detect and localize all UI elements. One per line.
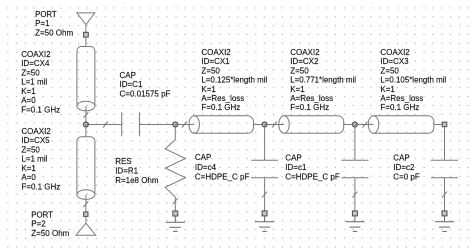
wire R1 to ground <box>173 197 178 211</box>
wire CX2 to node 4 <box>344 124 355 126</box>
port P1 <box>77 13 95 37</box>
wire P1 to CX4 <box>85 37 87 46</box>
ground (C2) <box>435 211 454 232</box>
wire node 1 to CX5 <box>85 125 87 137</box>
wire CX3 to node 5 <box>434 124 442 126</box>
capacitor C2 <box>431 160 458 178</box>
wire C4 to ground <box>262 178 267 211</box>
wire CX1 to node 3 <box>254 124 265 126</box>
coax CX5 <box>77 137 95 200</box>
coax CX3 <box>368 116 434 134</box>
capacitor C4 <box>251 160 278 178</box>
wire node 3 to C4 <box>264 125 266 161</box>
resistor R1 <box>165 140 185 197</box>
capacitor C1 shunt <box>341 160 368 178</box>
ground (C4) <box>255 211 274 232</box>
coax CX2 <box>279 116 344 134</box>
junction node 2 <box>173 122 178 127</box>
ground (C1 shunt) <box>345 211 364 232</box>
wire node 2 to CX1 <box>175 122 194 128</box>
wire CX4 to node 1 <box>83 106 88 125</box>
wire node 4 to CX3 <box>355 122 374 128</box>
coax CX4 <box>77 47 95 111</box>
ground (R1) <box>166 211 185 231</box>
wire C2 to ground <box>442 178 447 211</box>
junction node 1 <box>83 122 88 127</box>
wire C1 to node 2 <box>139 124 175 126</box>
junction node 3 <box>262 122 267 127</box>
junction node 4 <box>352 122 357 127</box>
wire CX5 to P2 <box>83 195 88 212</box>
node 5 terminal <box>442 122 447 127</box>
coax CX1 <box>189 116 254 134</box>
port P2 <box>76 212 96 235</box>
wire node 1 to C1 <box>86 122 122 128</box>
wire C1shunt to ground <box>352 178 357 211</box>
wire node 2 to R1 <box>174 125 176 140</box>
wire node 5 to C2 <box>444 127 446 161</box>
wire node 4 to C1shunt <box>354 125 356 161</box>
capacitor C1 <box>122 112 140 136</box>
wire node 3 to CX2 <box>265 122 284 128</box>
